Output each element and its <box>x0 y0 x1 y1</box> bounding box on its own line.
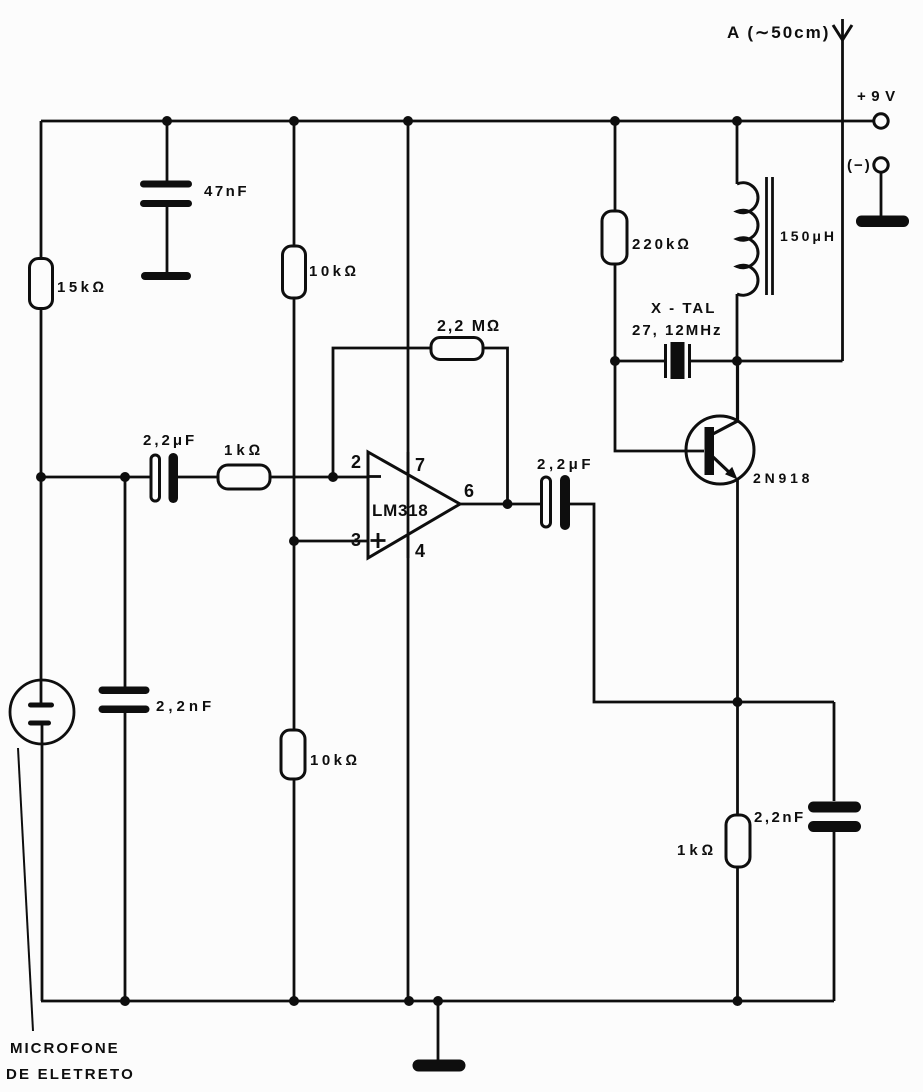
transistor Q1 emitter arrowhead <box>725 467 738 480</box>
op-amp supply line inside triangle <box>407 452 410 558</box>
svg-text:+9V: +9V <box>857 88 901 105</box>
junction node top rail / coil <box>732 116 742 126</box>
capacitor C4 2.2uF output positive plate <box>542 477 551 527</box>
ground symbol bottom bar <box>413 1060 466 1072</box>
junction node bottom rail / 10k <box>289 996 299 1006</box>
transistor Q1 base bar <box>705 427 715 475</box>
svg-text:6: 6 <box>464 481 476 501</box>
resistor R4 1k input body <box>218 465 270 489</box>
svg-text:10kΩ: 10kΩ <box>310 752 361 769</box>
wire antenna vertical <box>841 19 844 361</box>
junction node bottom rail / 1k emitter <box>733 996 743 1006</box>
junction node crystal left / 220k <box>610 356 620 366</box>
wire (-) terminal stem <box>880 172 883 217</box>
svg-text:LM318: LM318 <box>372 501 428 520</box>
svg-text:2,2nF: 2,2nF <box>156 698 215 715</box>
wire emitter column through 1k to bottom rail <box>736 479 739 1001</box>
svg-text:2,2μF: 2,2μF <box>537 456 594 473</box>
capacitor C2 2.2nF left top plate <box>99 687 150 695</box>
svg-text:220kΩ: 220kΩ <box>632 236 692 253</box>
wire ground stem bottom <box>437 1001 440 1061</box>
capacitor C1 47nF top plate <box>140 181 192 188</box>
wire collector <box>711 361 738 435</box>
wire 47nF branch upper <box>166 121 169 182</box>
op-amp U1 LM318 triangle <box>368 452 460 558</box>
svg-text:2,2 MΩ: 2,2 MΩ <box>437 318 501 335</box>
microphone bottom plate bar <box>28 721 51 726</box>
wire +9V top rail <box>41 120 873 123</box>
wire op-amp pin 3 <box>294 540 368 543</box>
junction node audio line / 2.2nF <box>120 472 130 482</box>
svg-text:A (∼50cm): A (∼50cm) <box>727 23 830 42</box>
svg-text:4: 4 <box>415 541 427 561</box>
svg-text:1kΩ: 1kΩ <box>677 842 717 859</box>
op-amp pin2 minus tick <box>368 475 381 478</box>
inductor L1 core lines <box>765 177 768 295</box>
wire microphone to bottom rail <box>41 722 44 1001</box>
capacitor C1 47nF bottom plate <box>140 200 192 207</box>
microphone top plate bar <box>28 703 54 708</box>
junction node top rail / op-amp supply <box>403 116 413 126</box>
junction node pin3 / divider <box>289 536 299 546</box>
junction node emitter / output network <box>733 697 743 707</box>
junction node top rail / 10k <box>289 116 299 126</box>
capacitor C5 2.2nF right top plate <box>808 802 861 813</box>
wire 220k branch and base wire <box>615 121 704 451</box>
crystal XTAL right plate <box>688 344 691 378</box>
wire bottom ground rail <box>41 1000 834 1003</box>
capacitor C4 2.2uF output negative plate <box>560 475 570 530</box>
ground symbol negative terminal bar <box>856 216 909 228</box>
svg-text:2,2nF: 2,2nF <box>754 809 806 826</box>
wire crystal left segment <box>615 360 665 363</box>
svg-text:MICROFONE: MICROFONE <box>10 1040 120 1057</box>
wire 2.2nF right lower <box>833 831 836 1001</box>
wire right branch down to 2.2nF <box>833 702 836 801</box>
junction node audio line / left rail <box>36 472 46 482</box>
svg-text:2,2μF: 2,2μF <box>143 432 197 449</box>
capacitor C2 2.2nF left bottom plate <box>99 706 150 714</box>
junction node top rail / 220k <box>610 116 620 126</box>
svg-text:3: 3 <box>351 530 363 550</box>
wire emitter diagonal <box>712 456 731 474</box>
svg-text:2N918: 2N918 <box>753 470 813 486</box>
terminal (-) circle <box>874 158 888 172</box>
svg-text:27, 12MHz: 27, 12MHz <box>632 322 723 339</box>
capacitor C1 47nF ground bar <box>141 272 191 280</box>
inductor L1 150uH coil <box>737 183 758 296</box>
microphone electret circle <box>10 680 74 744</box>
capacitor C5 2.2nF right bottom plate <box>808 821 861 832</box>
resistor R7 1k emitter body <box>726 815 750 867</box>
crystal XTAL filled body <box>671 342 685 379</box>
wire 2.2uF input cap to 1k and op-amp pin 2 <box>178 476 381 479</box>
wire 10k divider column <box>293 121 296 1001</box>
junction node audio line / feedback <box>328 472 338 482</box>
svg-text:DE ELETRETO: DE ELETRETO <box>6 1066 135 1083</box>
svg-text:15kΩ: 15kΩ <box>57 279 108 296</box>
svg-text:X - TAL: X - TAL <box>651 300 716 317</box>
resistor R5 2.2M feedback body <box>431 338 483 360</box>
junction node bottom rail / ground <box>433 996 443 1006</box>
op-amp pin3 plus sign <box>371 533 386 548</box>
capacitor C3 2.2uF input negative plate <box>169 453 179 503</box>
wire left rail middle (15k to microphone) <box>40 307 43 704</box>
svg-text:1kΩ: 1kΩ <box>224 442 264 459</box>
wire coil bottom to crystal node <box>736 294 739 361</box>
junction node bottom rail / 2.2nF <box>120 996 130 1006</box>
crystal XTAL left plate <box>664 344 667 378</box>
wire 2.2nF left branch upper <box>124 477 127 687</box>
svg-text:(−): (−) <box>847 157 872 174</box>
wire left rail upper (to 15k) <box>40 121 43 261</box>
wire coil branch upper <box>736 121 739 184</box>
resistor R3 10k bottom body <box>281 730 305 779</box>
wire crystal right segment to antenna <box>690 360 843 363</box>
wire op-amp output <box>460 503 541 506</box>
svg-text:2: 2 <box>351 452 363 472</box>
capacitor C3 2.2uF input positive plate <box>151 455 160 501</box>
microphone leader line <box>18 748 33 1031</box>
junction node bottom rail / op-amp supply <box>404 996 414 1006</box>
junction node crystal right / coil / antenna <box>732 356 742 366</box>
svg-text:10kΩ: 10kΩ <box>309 263 360 280</box>
wire op-amp supply column (pin7/pin4) <box>407 121 410 1001</box>
wire feedback left leg <box>333 348 431 477</box>
wire output cap to emitter node <box>570 504 834 702</box>
wire 2.2nF left branch lower <box>124 713 127 1001</box>
junction node output / feedback <box>503 499 513 509</box>
resistor R1 15k body <box>30 259 53 309</box>
transistor Q1 2N918 circle <box>686 416 754 484</box>
junction node top rail / 47nF <box>162 116 172 126</box>
resistor R6 220k body <box>602 211 627 264</box>
wire audio input line <box>41 476 151 479</box>
terminal +9V circle <box>874 114 888 128</box>
svg-text:7: 7 <box>415 455 427 475</box>
svg-text:150μH: 150μH <box>780 228 837 244</box>
wire feedback right leg <box>483 348 508 504</box>
antenna A <box>833 25 852 40</box>
svg-text:47nF: 47nF <box>204 183 249 200</box>
resistor R2 10k top body <box>283 246 306 298</box>
wire 47nF branch lower <box>166 206 169 273</box>
